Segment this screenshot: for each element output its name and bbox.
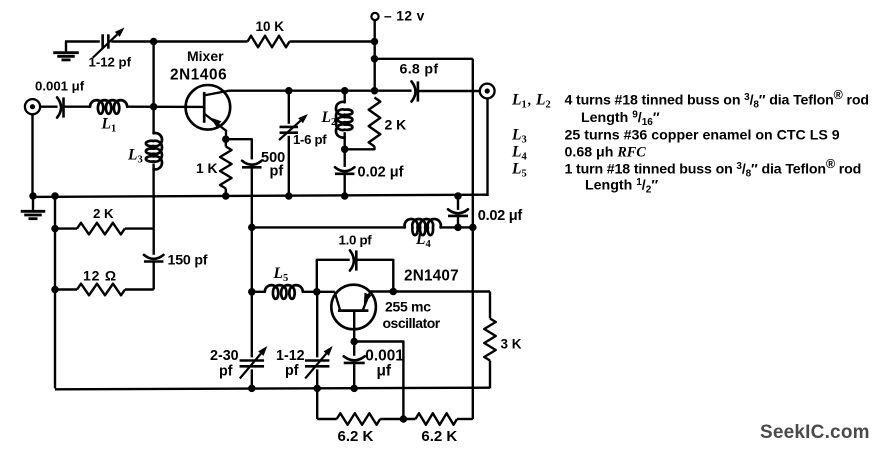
inductor L3 wire lower	[152, 163, 154, 196]
label oscillator	[383, 315, 441, 331]
capacitor 0.02 uf (right) stem	[457, 196, 459, 210]
label 1-12 pf (top)	[89, 55, 132, 70]
label 12 ohm	[83, 267, 117, 283]
label 0.02 uf (left)	[358, 165, 404, 181]
svg-text:2 K: 2 K	[385, 117, 407, 133]
node L1/top-rail branch	[150, 103, 158, 111]
svg-text:pf: pf	[219, 364, 233, 380]
resistor 6.2K (left)	[337, 413, 381, 425]
node L2 top	[341, 87, 349, 95]
label 0.001 uf (input)	[35, 79, 85, 94]
label 1.0 pf	[339, 233, 373, 248]
variable capacitor 2-30 pf line	[251, 292, 253, 389]
inductor L5	[265, 285, 303, 299]
node bottom x=354.2	[350, 385, 358, 393]
table row4 text	[565, 145, 647, 161]
node L5 left	[248, 288, 256, 296]
label 10 K	[256, 19, 285, 34]
svg-text:2 K: 2 K	[93, 206, 114, 221]
node 0.02uf right bottom	[454, 224, 462, 232]
label 0.02 uf (right)	[478, 208, 523, 224]
Q1 emitter lead	[204, 114, 226, 140]
svg-text:0.68 μh RFC: 0.68 μh RFC	[565, 145, 647, 161]
node L2/2K bottom	[341, 146, 349, 154]
label L2	[321, 109, 337, 128]
label L5	[273, 265, 289, 284]
svg-text:25 turns #36 copper enamel on: 25 turns #36 copper enamel on CTC LS 9	[565, 128, 840, 144]
node 0.02uf left / ground rail	[341, 192, 349, 200]
capacitor 6.8 pf	[412, 81, 418, 101]
wire x=153.7 rail to 2K	[152, 196, 154, 229]
label 1-12 (osc)	[276, 348, 305, 364]
resistor 1K	[220, 147, 232, 189]
svg-text:1-12: 1-12	[276, 348, 305, 364]
wire bottom rail y=388.4	[55, 388, 490, 390]
resistor 10K	[248, 36, 290, 48]
Q2 emitter lead (right)	[363, 292, 372, 311]
capacitor 150 pf lower stem	[152, 262, 154, 290]
wire Q2 emitter to 3K	[370, 290, 490, 292]
node -12v/right branch	[371, 55, 379, 63]
capacitor 1.0 pf	[350, 250, 356, 270]
output terminal	[480, 84, 495, 99]
label 2 K (horizontal)	[93, 206, 114, 221]
label uf (osc)	[377, 362, 392, 379]
table row3 text	[565, 128, 840, 144]
inductor L2	[336, 102, 352, 138]
svg-text:255 mc: 255 mc	[385, 299, 431, 315]
svg-text:6.2 K: 6.2 K	[421, 428, 457, 445]
wire y=58.8 to right vertical	[375, 58, 473, 60]
label 1-6 pf	[293, 132, 327, 147]
table row6 text Length 1/2	[585, 177, 658, 196]
wire input to 0.001uf	[40, 105, 57, 107]
label L4	[415, 231, 431, 250]
svg-text:6.2 K: 6.2 K	[338, 428, 374, 445]
resistor 1K leads	[225, 139, 227, 196]
wire osc node to Q2	[317, 291, 335, 293]
label 2N1406	[170, 67, 227, 84]
node Q1 emitter	[222, 135, 230, 143]
inductor L4	[405, 219, 441, 235]
capacitor 0.02 uf (right) lower stem	[457, 216, 459, 228]
inductor L3 wire upper	[152, 107, 154, 134]
capacitor 0.02 uf (left) lower stem	[344, 174, 346, 196]
capacitor 0.001 uf (osc) stem	[353, 342, 355, 356]
svg-text:12 Ω: 12 Ω	[83, 267, 117, 283]
svg-text:1-12 pf: 1-12 pf	[89, 55, 132, 70]
capacitor 150 pf	[144, 255, 164, 262]
svg-text:6.8 pf: 6.8 pf	[400, 62, 439, 78]
node supply/collector rail	[371, 87, 379, 95]
svg-text:μf: μf	[377, 362, 392, 379]
wire 1-12pf line down to 6.2K row	[316, 388, 318, 419]
node rail x=55	[51, 192, 59, 200]
svg-text:L5: L5	[511, 161, 527, 180]
node rail left end	[29, 192, 37, 200]
variable capacitor 1-12 pf (osc) line	[316, 292, 318, 389]
Q1 base bar	[203, 92, 206, 123]
wire left vertical x=55	[54, 196, 56, 388]
table row1 text	[565, 88, 869, 111]
capacitor 0.02 uf (left)	[335, 167, 355, 174]
svg-text:oscillator: oscillator	[383, 315, 441, 331]
label 2-30	[210, 348, 239, 364]
wire Q2 base feedback to 6.2K row	[354, 342, 403, 420]
capacitor 500 pf lower stem (crosses long wire)	[251, 167, 253, 227]
wire -12v feed vertical x=374.5	[374, 20, 376, 91]
node osc left (L5/1pf/1-12pf)	[313, 288, 321, 296]
svg-text:4 turns #18 tinned buss on 3/8: 4 turns #18 tinned buss on 3/8″ dia Tefl…	[565, 88, 869, 111]
input terminal (left)	[25, 99, 40, 114]
label -12v	[384, 8, 425, 23]
capacitor 1.0 pf loop left	[317, 260, 350, 292]
svg-text:2N1406: 2N1406	[170, 67, 227, 84]
label 0.001 (osc)	[365, 348, 404, 365]
svg-text:L1: L1	[511, 92, 527, 111]
capacitor 0.001 uf (osc)	[344, 356, 365, 363]
Q2 base lead down	[353, 311, 355, 342]
wire L4 rail y=227.4	[252, 226, 473, 228]
wire collector rail y=90.7	[229, 89, 412, 91]
table row5 text	[565, 157, 862, 180]
capacitor 500 pf	[242, 161, 261, 168]
resistor 3K leads	[489, 292, 491, 389]
capacitor 0.001 uf (input)	[57, 97, 63, 117]
label Mixer	[187, 48, 224, 64]
resistor 6.2K (right)	[416, 413, 458, 425]
table label L3	[511, 127, 527, 146]
terminal -12v	[371, 13, 378, 20]
svg-text:pf: pf	[285, 363, 299, 379]
node 2K-h left	[51, 225, 59, 233]
variable capacitor 1-6 pf branch wire	[288, 91, 290, 196]
svg-text:0.02 μf: 0.02 μf	[358, 165, 404, 181]
wire long rail y=196	[33, 195, 488, 197]
wire top rail y=41.5 (gnd to 1-12pf)	[65, 40, 100, 42]
svg-text:1.0 pf: 1.0 pf	[339, 233, 373, 248]
resistor 2K (horizontal) leads	[55, 227, 154, 229]
label L1	[101, 116, 117, 135]
variable capacitor 2-30 pf	[240, 346, 268, 379]
inductor L1	[90, 100, 127, 114]
variable capacitor 1-12 pf (top)	[93, 28, 125, 58]
Q2 collector lead (left)	[335, 292, 341, 311]
Q1 collector lead	[204, 91, 228, 96]
variable capacitor 1-6 pf	[279, 114, 308, 140]
node bottom x=251.8	[248, 385, 256, 393]
wire L5 to osc base node	[304, 291, 317, 293]
svg-text:1 K: 1 K	[196, 161, 218, 176]
wire between 6.2K resistors	[380, 418, 415, 420]
node 0.02uf right top	[454, 192, 462, 200]
resistor 12 ohm leads	[55, 288, 154, 290]
wire L1 to mixer base	[127, 105, 204, 108]
label pf (1-12 osc)	[285, 363, 299, 379]
wire 6.2K row right lead	[457, 418, 473, 420]
resistor 3K	[484, 319, 496, 361]
node 1-6pf top	[285, 87, 293, 95]
resistor 2K (vertical)	[345, 98, 381, 150]
label 255 mc	[385, 299, 431, 315]
label 2 K (vertical)	[385, 117, 407, 133]
node L4 rail right end	[469, 224, 477, 232]
table label L1,L2	[511, 92, 551, 111]
inductor L2 bottom wire	[344, 132, 346, 149]
wire top rail to 10K	[111, 40, 247, 42]
Q2 base bar	[338, 309, 369, 312]
wire branch x=153.6 (top rail to base wire)	[152, 42, 154, 107]
svg-text:,: ,	[528, 94, 532, 109]
label L3	[127, 147, 143, 166]
watermark SeekIC.com	[760, 422, 870, 443]
table row2 text Length 9/16	[581, 110, 660, 129]
node 1K bottom	[222, 192, 230, 200]
inductor L3	[146, 133, 162, 169]
label 6.8 pf	[400, 62, 439, 78]
inductor L2 top wire	[344, 91, 346, 103]
label 500	[261, 150, 285, 166]
ground (top-left)	[53, 42, 79, 60]
ground (left, below rail)	[21, 196, 46, 219]
svg-text:Length 1/2″: Length 1/2″	[585, 177, 658, 196]
resistor 2K (horizontal)	[77, 223, 125, 235]
capacitor 500 pf wire from emitter	[226, 139, 252, 159]
svg-text:L2: L2	[535, 92, 551, 111]
variable capacitor 1-12 pf (osc)	[305, 346, 333, 379]
node L4 rail left (500pf line)	[248, 224, 256, 232]
svg-text:L3: L3	[127, 147, 143, 166]
node top rail x=153.6	[150, 38, 158, 46]
node Q2 base / 0.001uf	[350, 338, 358, 346]
label pf (2-30)	[219, 364, 233, 380]
table label L4	[511, 144, 527, 163]
svg-text:2N1407: 2N1407	[404, 268, 459, 285]
label pf (500)	[270, 164, 284, 180]
node 12ohm left	[51, 286, 59, 294]
wire right vertical x=472.8	[472, 59, 474, 419]
svg-text:L1: L1	[101, 116, 117, 135]
capacitor 0.02 uf (left) stem	[344, 149, 346, 167]
node 1.0pf right	[390, 288, 398, 296]
capacitor 150 pf stem	[152, 229, 154, 255]
wire 6.8pf to output	[418, 90, 480, 92]
svg-text:1-6 pf: 1-6 pf	[293, 132, 327, 147]
node -12v/top rail	[371, 38, 379, 46]
resistor 12 ohm	[77, 284, 125, 296]
svg-text:SeekIC.com: SeekIC.com	[760, 422, 870, 443]
svg-text:pf: pf	[270, 164, 284, 180]
label 1 K	[196, 161, 218, 176]
capacitor 1.0 pf loop right	[356, 260, 393, 292]
svg-text:Mixer: Mixer	[187, 48, 224, 64]
table label L5	[511, 161, 527, 180]
label 150 pf	[168, 253, 208, 269]
svg-text:– 12 v: – 12 v	[384, 8, 425, 23]
label 6.2 K (right)	[421, 428, 457, 445]
svg-text:L2: L2	[321, 109, 337, 128]
wire 6.2K row left lead	[317, 418, 337, 420]
wire 0.001uf to L1	[64, 105, 91, 107]
label 6.2 K (left)	[338, 428, 374, 445]
capacitor 0.001 uf (osc) lower stem	[353, 363, 355, 389]
svg-text:0.02 μf: 0.02 μf	[478, 208, 523, 224]
label 3 K	[501, 337, 522, 352]
wire L5 left lead	[252, 291, 265, 293]
svg-text:3 K: 3 K	[501, 337, 522, 352]
transistor Q1 Mixer 2N1406 circle	[186, 85, 231, 130]
wire 10K to -12v node	[290, 40, 375, 42]
node 1-6pf bottom	[285, 192, 293, 200]
wire input terminal drop x=33	[31, 114, 33, 196]
svg-text:Length 9/16″: Length 9/16″	[581, 110, 660, 129]
svg-text:L5: L5	[273, 265, 289, 284]
wire output drop x=487.5	[486, 98, 488, 196]
svg-text:150 pf: 150 pf	[168, 253, 208, 269]
node bottom x=317.2	[313, 385, 321, 393]
transistor Q2 oscillator circle	[331, 285, 376, 330]
label 2N1407	[404, 268, 459, 285]
svg-text:2-30: 2-30	[210, 348, 239, 364]
capacitor 0.02 uf (right)	[448, 209, 468, 216]
node 6.2K junction	[400, 415, 408, 423]
svg-text:10 K: 10 K	[256, 19, 285, 34]
wire 500pf line down to L5 node	[251, 227, 253, 291]
svg-text:0.001 μf: 0.001 μf	[35, 79, 85, 94]
